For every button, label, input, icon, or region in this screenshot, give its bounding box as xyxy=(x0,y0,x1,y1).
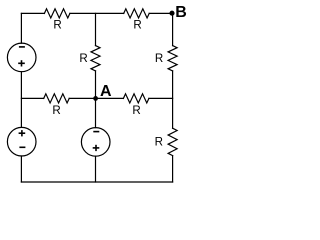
resistor R2 (top-right horizontal) xyxy=(124,9,150,18)
wire middle vertical top (top rail to R3) xyxy=(95,13,97,45)
voltage source V1 circle (top-left) xyxy=(7,43,36,72)
wire middle vertical (node A to V3 top) xyxy=(95,98,97,127)
wire top rail right segment to node B xyxy=(149,12,172,14)
svg-text:R: R xyxy=(52,104,60,117)
wire right rail top (node B to R4) xyxy=(172,13,174,45)
wire bottom rail xyxy=(21,181,172,183)
resistor R7 (right lower vertical) xyxy=(168,128,177,155)
wire middle horizontal left segment xyxy=(21,97,43,99)
V1 plus sign (bottom) xyxy=(18,62,25,64)
wire left rail middle (V1 bottom to V2 top) xyxy=(20,72,22,128)
wire left rail lower (V2 bottom to bottom rail) xyxy=(20,156,22,182)
svg-text:R: R xyxy=(133,19,141,32)
svg-text:R: R xyxy=(155,52,163,65)
wire right rail bottom xyxy=(172,156,174,182)
svg-text:R: R xyxy=(79,52,87,65)
wire middle horizontal right segment xyxy=(149,97,173,99)
svg-text:B: B xyxy=(175,4,187,21)
wire middle vertical bottom (V3 bottom to bottom rail) xyxy=(95,156,97,182)
svg-text:R: R xyxy=(53,19,61,32)
svg-text:A: A xyxy=(100,83,112,100)
svg-text:R: R xyxy=(155,136,163,149)
V2 plus sign (top) xyxy=(19,132,26,134)
resistor R5 (middle-left horizontal) xyxy=(44,94,69,103)
svg-text:R: R xyxy=(132,104,140,117)
resistor R6 (middle-right horizontal) xyxy=(123,94,148,103)
wire top rail left segment xyxy=(21,12,44,14)
wire right rail middle xyxy=(172,71,174,128)
node A junction dot xyxy=(93,96,98,101)
resistor R4 (right upper vertical) xyxy=(168,46,177,71)
V3 minus sign (top) xyxy=(93,131,99,133)
node B junction dot xyxy=(169,11,174,16)
wire middle horizontal (R5 to node A) xyxy=(69,97,95,99)
wire left rail upper (corner to V1 top) xyxy=(20,13,22,43)
V3 plus sign (bottom) xyxy=(93,147,100,149)
resistor R3 (middle vertical above node A) xyxy=(91,46,100,71)
V1 minus sign (top) xyxy=(19,46,25,48)
voltage source V2 circle (bottom-left) xyxy=(7,127,36,156)
resistor R1 (top-left horizontal) xyxy=(44,9,70,18)
V2 minus sign (bottom) xyxy=(19,146,25,148)
wire top rail middle segment xyxy=(70,12,124,14)
voltage source V3 circle (bottom-middle) xyxy=(81,128,110,157)
wire middle vertical (R3 to node A) xyxy=(95,71,97,99)
wire middle horizontal (node A to R6) xyxy=(96,97,124,99)
